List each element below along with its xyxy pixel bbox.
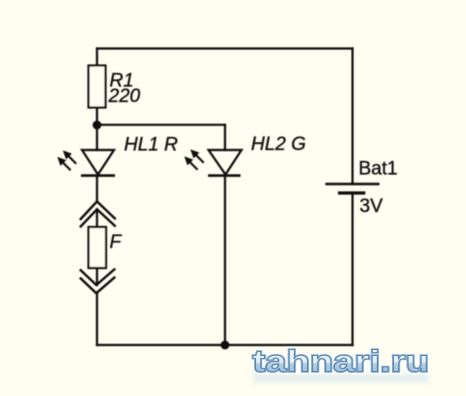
svg-text:F: F: [110, 232, 123, 253]
svg-text:Bat1: Bat1: [359, 159, 398, 180]
svg-text:tahnari.ru: tahnari.ru: [253, 345, 430, 379]
svg-text:HL2 G: HL2 G: [251, 134, 306, 155]
svg-text:220: 220: [108, 86, 141, 107]
svg-text:HL1 R: HL1 R: [124, 135, 178, 156]
svg-text:3V: 3V: [360, 196, 384, 217]
